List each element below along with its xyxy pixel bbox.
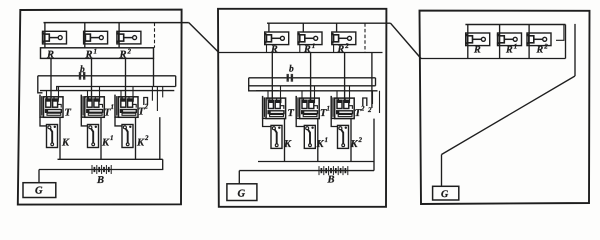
svg-text:2: 2 <box>543 43 548 51</box>
wire: local battery b line station 2 <box>249 77 376 79</box>
svg-text:1: 1 <box>110 134 114 142</box>
wire: stub into T2 second station 2 <box>349 86 351 101</box>
svg-text:R: R <box>46 50 54 61</box>
wire: cross line to transmitter T2 station 2 <box>344 53 346 101</box>
svg-text:G: G <box>441 189 449 200</box>
battery b station 1 <box>80 72 84 80</box>
wire: right column drop c <box>162 87 164 98</box>
galvanometer G station 2 <box>227 184 257 201</box>
wire: cross line station 3 <box>421 58 566 60</box>
key K station 2 <box>271 125 282 148</box>
svg-text:b: b <box>289 65 294 75</box>
relay R station 3 <box>465 33 490 46</box>
svg-text:2: 2 <box>344 42 349 50</box>
svg-text:1: 1 <box>312 42 316 50</box>
wire: R2 to cross line <box>333 45 335 53</box>
svg-text:R: R <box>473 45 481 56</box>
wire: relay R drop station 2 <box>268 23 270 32</box>
battery B station 1 <box>92 165 111 174</box>
wire: stub into T2 second <box>132 87 134 100</box>
transmitter T2 <box>115 95 138 118</box>
wire: R1 to cross line <box>299 45 301 53</box>
wire: main line bus of station 3 <box>465 24 565 26</box>
transmitter T1 <box>81 95 104 118</box>
svg-text:b: b <box>80 65 85 75</box>
battery b station 2 <box>288 74 292 82</box>
transmitter T2 station 2 <box>331 96 354 119</box>
galvanometer G station 3 <box>433 186 459 200</box>
wire: cross line to transmitter T station 2 <box>271 53 273 101</box>
wire: stub into T2 <box>120 91 122 100</box>
wire: T1 lever to key K1 station 2 <box>296 119 304 127</box>
wire: stub into T1 second station 2 <box>314 86 316 101</box>
svg-text:G: G <box>238 189 246 200</box>
relay R2 station 2 <box>331 32 356 45</box>
transmitter T station 2 <box>263 96 286 119</box>
wire: right column drop b <box>156 87 158 112</box>
wire: cross line station 2 <box>219 52 383 54</box>
wire: T2 lever to key K2 station 2 <box>331 119 337 127</box>
wire: main line bus of station 1 <box>44 22 189 24</box>
station I enclosure <box>18 10 182 205</box>
key K2 <box>122 125 133 148</box>
wire: K right side to bottom bus <box>59 117 61 159</box>
wire: bottom key bus <box>58 158 163 160</box>
svg-text:2: 2 <box>358 136 363 144</box>
wire: dashed branch right of R2 <box>154 23 156 48</box>
wire: T2 lever to key K2 <box>115 117 122 126</box>
wire: strip to transmitter T2 <box>125 58 127 101</box>
wire: stub into T <box>46 91 48 100</box>
wire: right side down to key bus <box>159 117 161 159</box>
svg-text:K: K <box>101 138 110 149</box>
relay R1 station 2 <box>297 32 322 45</box>
svg-text:T: T <box>288 108 295 119</box>
svg-text:2: 2 <box>144 134 149 142</box>
wire: line from station 2 to station 3 <box>391 23 422 58</box>
key K1 <box>88 125 99 148</box>
key K2 station 2 <box>338 125 349 148</box>
wire: K2 right side to bottom bus <box>135 117 137 159</box>
svg-text:1: 1 <box>94 48 98 56</box>
wire: right column drop a <box>151 87 153 101</box>
wire: key bus to battery line <box>162 159 164 169</box>
svg-text:R: R <box>505 45 513 56</box>
wire: dashed branch right of R2 station 2 <box>364 23 366 52</box>
wire: K1 right side to bottom bus <box>100 117 102 159</box>
wire: cross line right drop station 2 <box>371 53 373 109</box>
wire: b line right hook down station 2 <box>375 78 377 86</box>
wire: cross line to transmitter T1 station 2 <box>310 53 312 101</box>
wire: right vertical to line <box>574 24 576 76</box>
wire: stub into T1 second <box>99 87 101 100</box>
wire: stub into T1 station 2 <box>301 91 303 101</box>
wire: T lever to key K <box>40 117 47 126</box>
wire: key bus to battery line station 2 <box>373 162 375 171</box>
wire: stub into T second <box>58 87 60 100</box>
wire: stub into T second station 2 <box>280 86 282 101</box>
wire: relay R1 drop <box>84 23 86 48</box>
station III enclosure <box>420 11 590 204</box>
wire: main battery line <box>39 169 163 171</box>
svg-text:2: 2 <box>127 48 132 56</box>
battery B station 2 <box>319 166 338 175</box>
wire: strip to transmitter T1 <box>91 58 93 101</box>
wire: third horizontal bus station 2 <box>256 90 378 92</box>
wire: main line bus of station 2 <box>267 22 391 24</box>
wire: bottom key bus station 2 <box>258 161 374 163</box>
contact hook right of T2 <box>144 98 148 106</box>
resistance strip box station 1 <box>41 48 154 59</box>
wire: vertical to galvanometer station 3 <box>441 155 443 187</box>
relay R2 <box>116 31 141 44</box>
svg-text:1: 1 <box>111 103 115 111</box>
relay R1 station 3 <box>497 33 522 46</box>
wire: relay R drop station 3 <box>467 25 469 59</box>
wire: third horizontal bus station 1 <box>40 90 174 92</box>
svg-text:1: 1 <box>325 136 329 144</box>
wire: small branch near R2 <box>556 25 564 41</box>
transmitter T1 station 2 <box>296 96 319 119</box>
wire: bus right end down <box>565 25 567 59</box>
wire: right side down to key bus station 2 <box>373 119 375 162</box>
wire: right column drop a station 2 <box>372 91 374 104</box>
wire: strip right end drop <box>153 58 155 86</box>
svg-text:G: G <box>35 186 43 197</box>
wire: R to cross line <box>266 45 268 53</box>
svg-text:2: 2 <box>367 106 372 114</box>
wire: local battery b line <box>38 75 176 77</box>
wire: K2 right side to bottom bus station 2 <box>350 119 352 162</box>
wire: line from station 1 to station 2 <box>189 23 218 52</box>
key K1 station 2 <box>304 125 315 148</box>
relay R station 2 <box>264 32 289 45</box>
svg-text:1: 1 <box>327 105 331 113</box>
wire: diagonal down to galvanometer branch <box>442 76 576 155</box>
galvanometer G station 1 <box>23 183 56 198</box>
svg-text:K: K <box>350 139 359 150</box>
wire: K right side to bottom bus station 2 <box>284 119 286 162</box>
station II enclosure <box>218 9 386 207</box>
wire: b line left hook down station 2 <box>249 78 279 91</box>
wire: stub into T station 2 <box>267 91 269 101</box>
relay R <box>42 31 67 44</box>
wire: relay R2 drop station 2 <box>336 23 338 32</box>
wire: relay R2 drop <box>118 23 120 48</box>
wire: relay R1 drop station 2 <box>302 23 304 32</box>
wire: main battery line station 2 <box>239 170 374 172</box>
svg-text:T: T <box>65 108 72 119</box>
svg-text:B: B <box>96 175 104 186</box>
wire: relay R2 drop station 3 <box>528 25 530 59</box>
wire: right column drop b station 2 <box>379 91 381 113</box>
svg-text:K: K <box>283 139 292 150</box>
wire: battery line to galvanometer station 2 <box>238 171 240 184</box>
wire: K1 right side to bottom bus station 2 <box>317 119 319 162</box>
transmitter T <box>40 95 63 118</box>
svg-text:R: R <box>536 45 544 56</box>
relay R2 station 3 <box>526 33 551 46</box>
wire: second horizontal bus station 2 <box>249 85 376 87</box>
wire: b line left hook down <box>38 76 43 93</box>
key K <box>47 125 58 148</box>
wire: b line right hook down <box>175 76 177 87</box>
svg-text:K: K <box>61 138 70 149</box>
wire: stub into T1 <box>87 91 89 100</box>
svg-text:1: 1 <box>514 43 518 51</box>
svg-text:B: B <box>327 175 335 186</box>
svg-text:K: K <box>136 138 145 149</box>
wire: T1 lever to key K1 <box>81 117 87 126</box>
wire: battery line to galvanometer <box>38 170 40 183</box>
wire: relay R1 drop station 3 <box>499 25 501 59</box>
svg-text:K: K <box>316 139 325 150</box>
wire: strip to transmitter T <box>50 58 52 101</box>
wire: second horizontal bus station 1 <box>57 87 176 91</box>
wire: relay R drop <box>44 23 46 48</box>
relay R1 <box>83 31 108 44</box>
wire: stub into T2 station 2 <box>336 91 338 101</box>
contact hook right of T2 station 2 <box>363 98 367 106</box>
wire: T lever to key K station 2 <box>263 119 271 127</box>
